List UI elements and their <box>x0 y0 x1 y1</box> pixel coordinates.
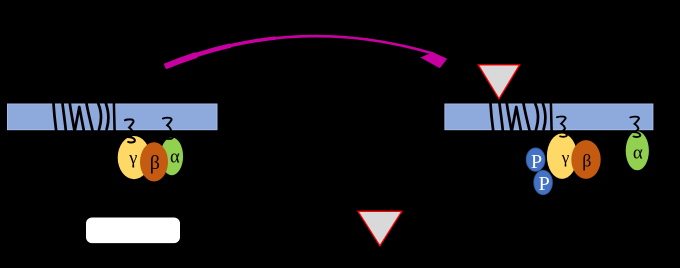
svg-text:β: β <box>150 152 160 174</box>
empty label box <box>86 218 180 244</box>
left lipid anchor tail to gamma <box>125 119 135 142</box>
ligand triangle (bottom, free) <box>358 211 402 246</box>
G protein beta subunit (right) <box>571 140 600 179</box>
right lipid anchor tail to gamma <box>557 116 567 136</box>
left GPCR receptor helices <box>54 104 115 131</box>
svg-text:P: P <box>539 173 550 195</box>
activation curved arrow <box>165 36 447 68</box>
svg-text:P: P <box>531 151 542 173</box>
right lipid anchor tail to alpha <box>630 117 640 137</box>
phosphate P1 <box>526 148 545 171</box>
phosphate P2 <box>534 170 553 194</box>
G protein alpha subunit (left) <box>161 137 184 175</box>
G protein gamma subunit (right) <box>547 134 577 179</box>
left plasma membrane <box>8 104 218 130</box>
ligand triangle (top, bound) <box>478 65 519 99</box>
svg-text:α: α <box>170 146 180 167</box>
svg-text:α: α <box>633 143 643 164</box>
G protein gamma subunit (left) <box>118 136 151 179</box>
right GPCR receptor helices <box>491 104 552 131</box>
svg-text:γ: γ <box>561 148 570 167</box>
svg-text:γ: γ <box>128 147 137 167</box>
G protein alpha subunit (right, dissociated) <box>626 131 649 170</box>
svg-text:β: β <box>582 150 591 170</box>
right plasma membrane <box>445 104 653 130</box>
G protein beta subunit (left) <box>140 142 168 181</box>
left lipid anchor tail to alpha <box>163 118 173 139</box>
